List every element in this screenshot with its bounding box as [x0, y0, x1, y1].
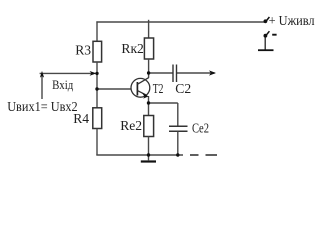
svg-text:R3: R3: [75, 43, 91, 58]
svg-text:Rк2: Rк2: [121, 41, 144, 56]
svg-text:+ Uживл: + Uживл: [269, 13, 315, 28]
svg-text:Cе2: Cе2: [192, 121, 209, 136]
svg-text:Вхід: Вхід: [52, 78, 73, 92]
svg-text:Uвих1= Uвх2: Uвих1= Uвх2: [7, 99, 78, 114]
svg-text:T2: T2: [153, 81, 164, 96]
svg-text:Rе2: Rе2: [120, 118, 142, 133]
svg-text:C2: C2: [175, 81, 191, 96]
